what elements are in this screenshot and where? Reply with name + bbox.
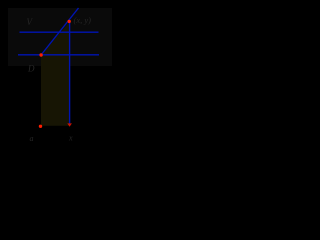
svg-text:x: x [68,134,73,143]
wire: horizontal line y1 [20,31,99,33]
wire: diagonal secant line [41,8,79,55]
plot panel [8,8,112,66]
svg-text:D: D [27,64,35,74]
arrowhead (red, down) [67,123,72,126]
wire: vertical line [69,22,71,124]
node second point [39,53,42,56]
shaded region (quad under secant) [41,22,70,126]
node axis point [39,125,42,128]
node (x,y) point [68,20,71,23]
svg-text:a: a [30,134,34,143]
wire: horizontal line y2 [18,54,99,56]
svg-text:(x, y): (x, y) [74,15,92,25]
